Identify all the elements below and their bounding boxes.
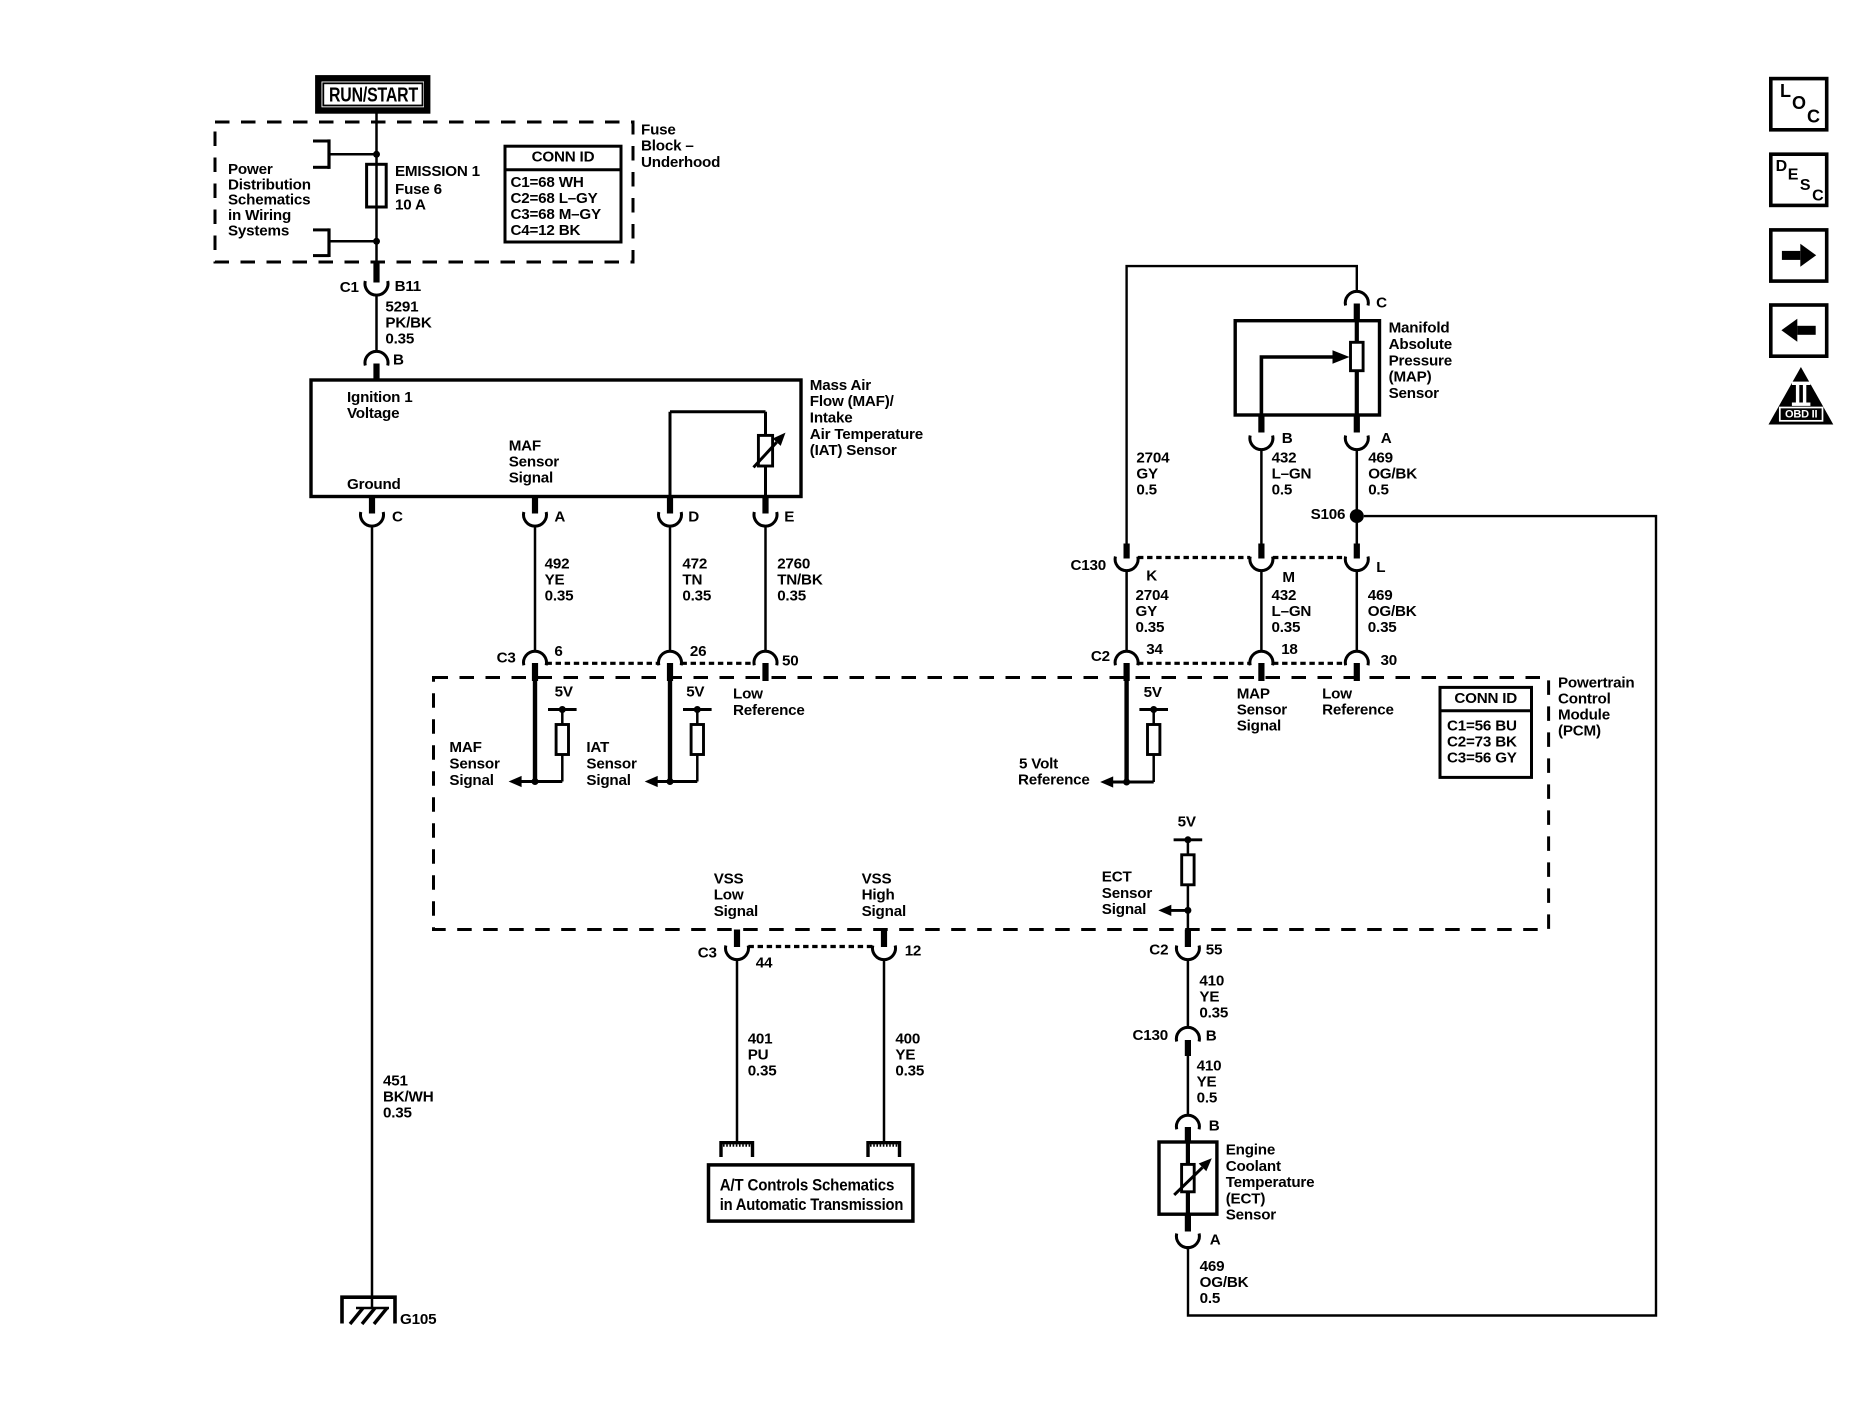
svg-text:Sensor: Sensor [1226,1207,1277,1224]
svg-text:Flow (MAF)/: Flow (MAF)/ [810,393,895,410]
svg-text:Module: Module [1558,707,1610,724]
svg-text:E: E [784,508,794,525]
label MAP sensor signal [1237,685,1288,734]
5V pull-up (MAF input) [548,684,577,782]
svg-text:Signal: Signal [1102,901,1146,918]
svg-text:C2=73 BK: C2=73 BK [1447,733,1517,750]
svg-text:Air Temperature: Air Temperature [810,426,923,443]
svg-text:in Automatic Transmission: in Automatic Transmission [720,1196,904,1214]
wire 469 OG/BK 0.5 (ECT return) [1188,1247,1249,1307]
svg-text:Temperature: Temperature [1226,1174,1315,1191]
svg-text:50: 50 [782,653,799,670]
svg-text:CONN ID: CONN ID [1454,690,1517,707]
svg-text:451: 451 [383,1073,408,1090]
conn id table (fuse block) [505,146,621,242]
pin C (MAF/IAT sensor) [360,497,403,527]
svg-text:Signal: Signal [449,772,493,789]
svg-text:S106: S106 [1311,506,1346,523]
svg-text:C3=56 GY: C3=56 GY [1447,749,1517,766]
connector C3 pin 44 [726,930,774,972]
pin link dotted C3 [547,662,659,665]
svg-text:IAT: IAT [586,739,610,756]
svg-text:L: L [1780,81,1791,101]
svg-text:469: 469 [1368,449,1393,466]
svg-text:0.35: 0.35 [1199,1005,1229,1022]
PCM conn id table [1440,687,1532,777]
note: power distribution schematics [228,161,311,240]
svg-text:Low: Low [733,686,763,703]
MAF sensor signal input arrow [449,679,562,789]
connector pin C (MAP sensor) [1345,291,1387,321]
connector C3 pin 50 [754,651,799,681]
svg-text:L–GN: L–GN [1272,603,1312,620]
svg-text:0.5: 0.5 [1272,481,1293,498]
icon DESC [1771,154,1827,205]
svg-text:C2: C2 [1149,942,1168,959]
svg-text:ECT: ECT [1102,869,1133,886]
svg-text:5V: 5V [686,684,705,701]
svg-text:(MAP): (MAP) [1389,369,1432,386]
svg-text:C2=68 L–GY: C2=68 L–GY [511,190,598,207]
svg-text:C3: C3 [497,649,516,666]
svg-text:Ignition 1: Ignition 1 [347,389,413,406]
svg-text:Reference: Reference [733,702,805,719]
5 volt reference arrow [1018,679,1154,789]
svg-text:34: 34 [1146,641,1163,658]
svg-text:18: 18 [1281,641,1298,658]
svg-text:YE: YE [545,572,565,589]
wire 400 YE 0.35 [884,960,925,1141]
svg-text:0.35: 0.35 [545,588,575,605]
svg-text:Fuse 6: Fuse 6 [395,181,442,198]
svg-text:(PCM): (PCM) [1558,723,1601,740]
wire 469 OG/BK 0.35 [1357,571,1417,651]
svg-text:0.35: 0.35 [385,330,415,347]
off-page reference bracket (top) [313,139,377,169]
svg-text:0.35: 0.35 [383,1105,413,1122]
svg-text:0.35: 0.35 [1368,619,1398,636]
svg-text:432: 432 [1272,587,1297,604]
wire 401 PU 0.35 [737,960,777,1141]
connector C3 pin 26 [659,643,707,681]
pin link dotted VSS [749,945,873,948]
icon OBD II triangle [1769,367,1834,425]
svg-text:400: 400 [895,1031,920,1048]
svg-text:0.5: 0.5 [1368,481,1389,498]
svg-text:Signal: Signal [714,903,758,920]
svg-text:12: 12 [905,943,922,960]
label low reference (row 1) [733,686,805,719]
PCM module dashed box [434,675,1635,930]
ECT sensor signal arrow [1102,869,1192,930]
pin link dotted C130 [1138,556,1250,559]
svg-text:G105: G105 [400,1311,437,1328]
svg-text:0.5: 0.5 [1136,481,1157,498]
svg-text:0.35: 0.35 [895,1063,925,1080]
svg-text:CONN ID: CONN ID [532,149,595,166]
wire 472 TN 0.35 [670,526,712,652]
connector C2 pin 34 [1115,641,1163,681]
svg-text:TN: TN [682,572,702,589]
svg-text:0.35: 0.35 [777,588,807,605]
svg-text:B: B [1282,430,1293,447]
svg-text:Ground: Ground [347,476,401,493]
svg-text:Engine: Engine [1226,1142,1275,1159]
svg-text:0.35: 0.35 [748,1063,778,1080]
pin link dotted C2 [1138,662,1250,665]
connector C2 pin 30 [1345,651,1397,681]
svg-text:0.5: 0.5 [1200,1290,1221,1307]
svg-text:Powertrain: Powertrain [1558,675,1635,692]
svg-text:GY: GY [1136,603,1158,620]
connector C130 pin M [1250,544,1295,586]
svg-text:401: 401 [748,1031,773,1048]
svg-text:D: D [688,508,699,525]
connector C3 pin 6 [524,643,563,681]
svg-text:Low: Low [714,887,744,904]
icon arrow left [1771,305,1827,356]
label VSS high signal [862,870,906,919]
svg-text:6: 6 [554,643,562,660]
svg-text:YE: YE [895,1047,915,1064]
wire: MAP harness top loop [1127,266,1357,543]
svg-text:C130: C130 [1071,557,1107,574]
svg-text:OG/BK: OG/BK [1368,465,1417,482]
pin link dotted C2b [1273,662,1345,665]
wire 5291 PK/BK 0.35 [377,295,432,352]
svg-text:Coolant: Coolant [1226,1158,1281,1175]
svg-text:L: L [1376,559,1385,576]
ECT thermistor element [1174,1142,1212,1214]
svg-text:PK/BK: PK/BK [385,314,431,331]
svg-text:(ECT): (ECT) [1226,1190,1266,1207]
svg-text:469: 469 [1368,587,1393,604]
svg-text:OG/BK: OG/BK [1368,603,1417,620]
svg-text:5 Volt: 5 Volt [1019,756,1058,773]
svg-text:410: 410 [1197,1058,1222,1075]
svg-text:A: A [554,508,565,525]
svg-text:Signal: Signal [862,903,906,920]
connector C1 pin B11 [340,262,422,296]
svg-text:Sensor: Sensor [1102,885,1153,902]
svg-text:5V: 5V [1178,813,1197,830]
pin link dotted C3b [682,662,755,665]
svg-text:E: E [1788,167,1799,184]
svg-text:A: A [1381,430,1392,447]
svg-text:L–GN: L–GN [1272,465,1312,482]
svg-text:Pressure: Pressure [1389,352,1452,369]
label VSS low signal [714,870,758,919]
svg-text:C: C [392,508,403,525]
svg-text:Reference: Reference [1018,772,1090,789]
pin D (MAF/IAT sensor) [659,497,700,527]
icon LOC [1771,79,1827,130]
wire 492 YE 0.35 [535,526,574,652]
wire 432 L-GN 0.5 [1261,449,1311,544]
svg-text:5V: 5V [555,684,574,701]
component connector staple (VSS high) [868,1143,900,1157]
svg-text:Mass Air: Mass Air [810,377,871,394]
svg-text:0.35: 0.35 [1136,619,1166,636]
svg-text:B: B [1209,1118,1220,1135]
wire: RUN/START to fuse [373,114,380,165]
label low reference (row 2) [1322,685,1394,718]
power feed box RUN/START [318,78,427,110]
connector pin B (ECT sensor) [1176,1115,1219,1143]
pin A (MAP sensor) [1345,415,1391,450]
connector C130 pin L [1345,544,1385,577]
svg-text:YE: YE [1199,989,1219,1006]
wire 410 YE 0.5 [1188,1056,1221,1117]
fuse EMISSION 1 Fuse 6 10 A [367,163,481,214]
pin E (MAF/IAT sensor) [754,497,794,527]
svg-text:M: M [1282,569,1294,586]
svg-text:Underhood: Underhood [641,154,720,171]
svg-text:Manifold: Manifold [1389,320,1450,337]
svg-text:Block –: Block – [641,138,694,155]
svg-text:492: 492 [545,556,570,573]
5V pull-up (ECT input) [1174,813,1203,910]
connector C130 pin K [1115,544,1157,585]
connector C2 pin 18 [1250,641,1298,681]
svg-text:High: High [862,887,895,904]
svg-text:C3=68 M–GY: C3=68 M–GY [511,206,602,223]
MAP potentiometer element [1261,321,1363,415]
svg-text:5V: 5V [1144,684,1163,701]
svg-text:C130: C130 [1133,1027,1169,1044]
wire 469 OG/BK 0.5 [1357,449,1417,544]
svg-text:2704: 2704 [1136,449,1170,466]
svg-text:MAF: MAF [449,739,481,756]
svg-text:C3: C3 [698,944,717,961]
svg-text:Absolute: Absolute [1389,336,1452,353]
svg-text:410: 410 [1199,973,1224,990]
wire 410 YE 0.35 [1188,960,1229,1028]
svg-text:Sensor: Sensor [449,756,500,773]
svg-text:Systems: Systems [228,223,289,240]
svg-text:VSS: VSS [714,870,744,887]
svg-text:Sensor: Sensor [586,756,637,773]
svg-text:C4=12 BK: C4=12 BK [511,222,581,239]
svg-text:Reference: Reference [1322,701,1394,718]
svg-text:44: 44 [756,955,773,972]
svg-text:Signal: Signal [509,470,553,487]
svg-text:5291: 5291 [385,298,419,315]
splice S106 [1311,506,1364,523]
wire 2704 GY 0.35 [1127,571,1170,651]
connector B (MAF/IAT sensor) [365,351,404,381]
svg-text:GY: GY [1136,465,1158,482]
pin B (MAP sensor) [1250,415,1293,450]
svg-text:26: 26 [690,643,707,660]
connector C3 pin 12 [873,930,922,960]
svg-text:C: C [1807,107,1820,127]
icon arrow right [1771,230,1827,281]
svg-text:A: A [1210,1231,1221,1248]
svg-text:472: 472 [682,556,707,573]
component connector staple (VSS low) [721,1143,753,1157]
svg-text:C1=68 WH: C1=68 WH [511,174,584,191]
5V pull-up (5 volt reference) [1139,684,1168,782]
svg-text:C2: C2 [1091,648,1110,665]
svg-text:432: 432 [1272,449,1297,466]
IAT thermistor element [670,412,786,497]
svg-text:469: 469 [1200,1258,1225,1275]
svg-text:EMISSION 1: EMISSION 1 [395,163,481,180]
svg-text:Low: Low [1322,685,1352,702]
wire 2704 GY 0.5 [1136,449,1170,498]
svg-text:B: B [1206,1028,1217,1045]
svg-text:A/T Controls Schematics: A/T Controls Schematics [720,1176,895,1194]
ECT sensor box [1159,1142,1314,1224]
connector C2 pin 55 [1176,930,1223,960]
off-page reference bracket (bottom) [313,228,377,257]
svg-text:YE: YE [1197,1074,1217,1091]
IAT sensor signal input arrow [586,679,697,789]
svg-text:Voltage: Voltage [347,405,399,422]
svg-text:VSS: VSS [862,870,892,887]
A/T controls schematics box [709,1165,913,1221]
wire 451 BK/WH 0.35 (ground wire) [372,526,433,1308]
svg-text:Fuse: Fuse [641,121,676,138]
svg-text:K: K [1146,568,1157,585]
svg-text:C1=56 BU: C1=56 BU [1447,718,1517,735]
svg-text:OBD II: OBD II [1785,408,1818,420]
svg-text:0.35: 0.35 [682,588,712,605]
svg-text:D: D [1776,158,1787,175]
svg-text:0.35: 0.35 [1272,619,1302,636]
svg-text:Intake: Intake [810,410,853,427]
svg-text:(IAT) Sensor: (IAT) Sensor [810,442,897,459]
svg-text:OG/BK: OG/BK [1200,1274,1249,1291]
svg-text:Control: Control [1558,691,1611,708]
pin link dotted C130b [1273,556,1345,559]
connector pin A (ECT sensor) [1176,1214,1220,1248]
svg-text:PU: PU [748,1047,769,1064]
svg-text:O: O [1792,93,1806,113]
svg-text:C1: C1 [340,279,360,296]
svg-text:Signal: Signal [586,772,630,789]
svg-text:Sensor: Sensor [509,454,560,471]
svg-text:10 A: 10 A [395,197,426,214]
svg-text:S: S [1800,177,1811,194]
MAP sensor box [1235,320,1452,415]
pin A (MAF/IAT sensor) [524,497,566,527]
svg-text:TN/BK: TN/BK [777,572,823,589]
5V pull-up (IAT input) [683,684,712,782]
svg-text:BK/WH: BK/WH [383,1089,433,1106]
ground G105 [342,1297,437,1328]
svg-text:B11: B11 [395,278,422,295]
svg-text:Signal: Signal [1237,718,1281,735]
wire: fuse to connector C1 [373,207,380,262]
wire: S106 branch to right rail and ECT return [1188,516,1656,1315]
svg-text:Sensor: Sensor [1237,701,1288,718]
svg-text:RUN/START: RUN/START [329,85,418,107]
svg-text:C: C [1812,188,1824,205]
svg-text:MAF: MAF [509,438,541,455]
fuse block underhood dashed box [215,121,720,262]
svg-text:0.5: 0.5 [1197,1090,1218,1107]
svg-text:2704: 2704 [1136,587,1170,604]
svg-text:30: 30 [1381,652,1398,669]
svg-text:C: C [1376,294,1387,311]
wire 432 L-GN 0.35 [1261,571,1311,651]
connector C130 pin B (ECT) [1133,1027,1217,1056]
svg-text:Sensor: Sensor [1389,385,1440,402]
svg-text:MAP: MAP [1237,685,1270,702]
MAF/IAT sensor box [311,377,923,497]
svg-text:B: B [393,351,404,368]
wire 2760 TN/BK 0.35 [766,526,823,652]
svg-text:2760: 2760 [777,556,810,573]
svg-text:55: 55 [1206,942,1223,959]
